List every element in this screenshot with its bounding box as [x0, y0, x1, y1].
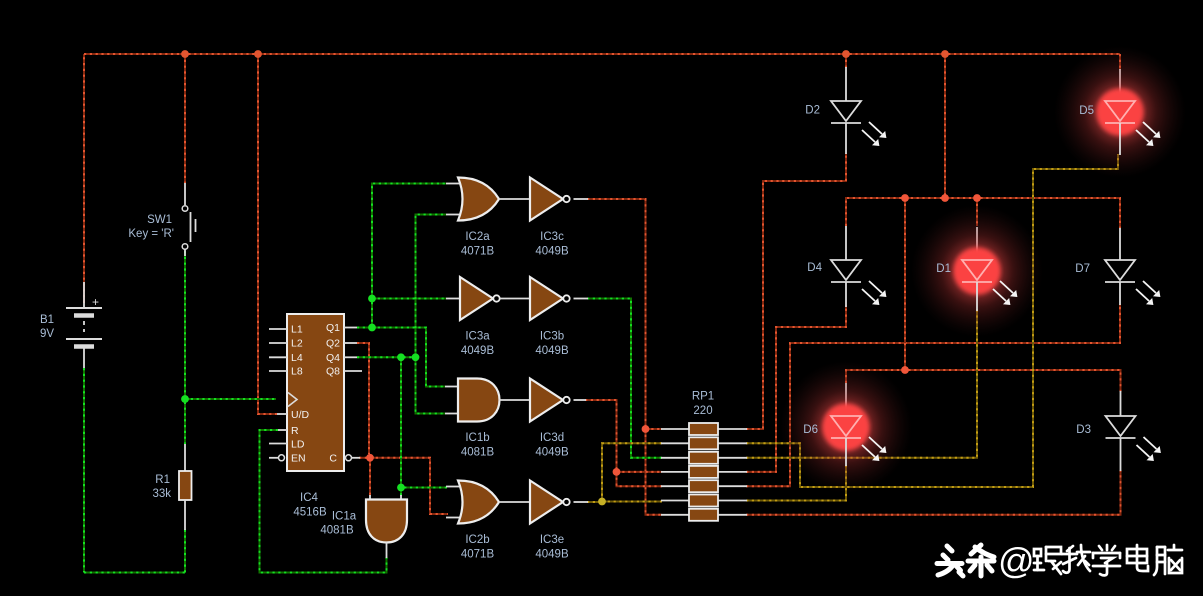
svg-text:Key = 'R': Key = 'R': [128, 228, 174, 240]
IC3c output stub: [574, 198, 589, 200]
D5 cathode lead: [1119, 123, 1121, 155]
pin L2 stub: [269, 342, 287, 344]
wire anode bus4 D6-D3: [846, 370, 1121, 392]
wire C pin to node: [359, 457, 370, 459]
LED D6: [780, 361, 912, 493]
IC3e output stub: [574, 501, 589, 503]
D1 anode lead: [976, 227, 978, 260]
svg-text:EN: EN: [291, 453, 306, 465]
watermark xue: [1093, 545, 1120, 575]
wire D2 anode from bus1: [845, 54, 847, 68]
node clock junction: [181, 395, 189, 403]
node Q4-IC2b: [397, 484, 405, 492]
wire IC4 R pin to IC1a output: [260, 430, 387, 573]
svg-text:Q2: Q2: [326, 338, 340, 350]
IC3b output stub: [574, 298, 589, 300]
node Q2-C junction: [366, 454, 374, 462]
svg-text:4516B: 4516B: [293, 507, 327, 519]
svg-text:D6: D6: [803, 424, 818, 436]
wire U/D from bus: [258, 54, 277, 414]
LED D7: [1105, 260, 1160, 305]
wire IC1b out to IC3d in: [500, 399, 531, 401]
svg-text:C: C: [329, 453, 337, 465]
D3 anode lead: [1120, 391, 1122, 416]
IC3a inverter: [460, 277, 500, 320]
svg-text:33k: 33k: [152, 488, 171, 500]
svg-text:L4: L4: [291, 352, 303, 364]
node IC3d-RP1: [613, 468, 621, 476]
pin LD stub: [269, 443, 287, 445]
svg-text:4049B: 4049B: [535, 549, 569, 561]
svg-text:L1: L1: [291, 324, 303, 336]
svg-text:D7: D7: [1075, 263, 1090, 275]
svg-text:IC1a: IC1a: [332, 511, 357, 523]
wire IC3c output down to RP1: [587, 199, 646, 429]
op IC1b input stub B: [445, 413, 459, 415]
resistor pack RP1: [661, 423, 747, 521]
svg-text:LD: LD: [291, 439, 305, 451]
wire Q4 node up to IC2a input B: [416, 215, 447, 358]
svg-text:IC3a: IC3a: [465, 331, 490, 343]
svg-text:IC3c: IC3c: [540, 231, 564, 243]
node bus1-bus2: [941, 50, 949, 58]
svg-text:L2: L2: [291, 338, 303, 350]
svg-text:D4: D4: [807, 262, 822, 274]
wire battery- down: [83, 368, 85, 573]
svg-text:U/D: U/D: [291, 409, 310, 421]
wire Q2 to node: [357, 343, 369, 454]
IC4 4516B counter body: [287, 314, 344, 471]
battery B1: [66, 295, 102, 368]
node bus2-vert945: [941, 194, 949, 202]
node Q1 junction: [368, 324, 376, 332]
wire IC3a out to IC3b in: [500, 298, 530, 300]
wire Q4 node down to IC1b input B: [416, 357, 446, 413]
op IC2b input stub B: [446, 517, 462, 519]
op IC2b OR gate: [458, 481, 499, 524]
svg-text:220: 220: [693, 405, 712, 417]
wire SW1 top from bus: [184, 54, 186, 183]
pin Q8 stub: [344, 370, 362, 372]
svg-text:IC3b: IC3b: [540, 331, 564, 343]
LED D1: [911, 205, 1043, 337]
svg-text:R: R: [291, 425, 299, 437]
watermark gen: [1034, 547, 1061, 574]
svg-text:4049B: 4049B: [535, 447, 569, 459]
IC3d output stub: [574, 399, 587, 401]
LED D2: [831, 101, 886, 146]
svg-text:IC2a: IC2a: [465, 231, 490, 243]
pin Q1 stub: [344, 327, 357, 329]
node bus2-vert905: [901, 194, 909, 202]
op IC1b input stub A: [445, 386, 459, 388]
wire IC3d output down to RP1: [585, 400, 617, 472]
wire IC2b out to IC3e in: [499, 501, 530, 503]
svg-text:Q1: Q1: [326, 322, 340, 334]
D1 cathode lead: [976, 282, 978, 311]
svg-text:R1: R1: [155, 474, 170, 486]
wire D5 anode stub from bus: [1119, 54, 1121, 70]
switch SW1: [182, 183, 195, 256]
wire SW1 bottom to R1 clock net: [184, 251, 186, 444]
wire RP1 row2 to D5 cathode: [746, 154, 1118, 487]
watermark nao: [1154, 545, 1182, 575]
svg-text:4049B: 4049B: [461, 345, 495, 357]
wire RP1 row1 to D2 cathode: [746, 153, 846, 429]
wire RP1 row5 to D7 cathode bus3: [746, 304, 1120, 486]
D3 cathode lead: [1120, 438, 1122, 471]
node bus4-vert905: [901, 366, 909, 374]
D5 anode lead: [1119, 69, 1121, 101]
watermark toutiao logo: [937, 546, 963, 576]
svg-text:4081B: 4081B: [320, 525, 354, 537]
node Q1-IC3a: [368, 295, 376, 303]
wire Q4 node down to IC2b input A: [401, 357, 447, 487]
wire Q1 to node: [357, 327, 372, 329]
wire RP1 row4 left: [617, 471, 663, 473]
D2 anode lead: [845, 67, 847, 101]
resistor R1: [179, 471, 192, 500]
wire node up to RP1 row2 left: [602, 443, 662, 501]
node bus2-D1: [973, 194, 981, 202]
watermark dian: [1127, 545, 1148, 571]
pin C stub with bubble: [346, 455, 361, 461]
IC3c inverter: [530, 178, 570, 221]
node Q4 junction A: [397, 353, 405, 361]
op IC2a input stub A: [446, 183, 462, 185]
wire node to RP1 row7 left: [646, 429, 663, 515]
svg-text:IC3d: IC3d: [540, 432, 564, 444]
D7 anode lead: [1119, 228, 1121, 260]
pin L1 stub: [269, 328, 287, 330]
node bus1-U/D: [254, 50, 262, 58]
wire RP1 row7 to D3 cathode: [746, 470, 1121, 515]
svg-text:D1: D1: [936, 263, 951, 275]
watermark wo: [1062, 545, 1090, 573]
wire bottom bus left: [84, 572, 185, 574]
wire node to RP1 row6 left: [602, 501, 662, 503]
LED D3: [1106, 416, 1161, 461]
svg-text:IC4: IC4: [300, 492, 319, 504]
IC3e inverter: [530, 481, 570, 524]
svg-text:SW1: SW1: [147, 214, 172, 226]
wire bus2 to bus4 vertical: [904, 198, 906, 370]
wire bus1 to bus2 vertical: [944, 54, 946, 198]
svg-text:+: +: [92, 295, 99, 309]
svg-text:RP1: RP1: [692, 391, 714, 403]
wire Q1 node to IC1b input A: [372, 328, 445, 387]
svg-text:IC1b: IC1b: [465, 432, 489, 444]
wire IC2a out to IC3c in: [499, 198, 530, 200]
wire IC3b output to RP1 row3 left: [587, 299, 662, 458]
wire node to IC1a input A: [369, 458, 371, 496]
op IC2a OR gate: [458, 178, 499, 221]
pin EN stub with bubble: [269, 455, 285, 461]
svg-text:4071B: 4071B: [461, 246, 495, 258]
IC3a input stub: [446, 298, 461, 300]
LED D5: [1054, 46, 1186, 178]
node bus1-SW1: [181, 50, 189, 58]
node IC3c-RP1: [642, 425, 650, 433]
pin L8 stub: [269, 370, 287, 372]
wire IC3e output to node: [587, 501, 602, 503]
wire battery+ to top bus: [83, 54, 85, 303]
pin U/D stub: [277, 413, 287, 415]
node Q4 junction B: [412, 353, 420, 361]
pin Q2 stub: [344, 342, 357, 344]
op IC2b input stub A: [446, 486, 462, 488]
svg-text:4049B: 4049B: [535, 345, 569, 357]
D7 cathode lead: [1119, 282, 1121, 305]
D6 cathode lead: [845, 438, 847, 466]
wire RP1 row1 left: [646, 428, 663, 430]
wire node to IC2b input B: [370, 458, 448, 514]
clock chevron: [288, 393, 297, 407]
pin R stub: [278, 429, 287, 431]
pin L4 stub: [269, 356, 287, 358]
svg-text:L8: L8: [291, 366, 303, 378]
svg-text:@: @: [998, 540, 1035, 581]
svg-text:IC3e: IC3e: [540, 534, 564, 546]
wire RP1 row4 to D4 cathode: [746, 305, 846, 472]
resistor R1 top lead: [184, 444, 186, 471]
svg-text:4081B: 4081B: [461, 447, 495, 459]
D6 anode lead: [845, 383, 847, 416]
D2 cathode lead: [845, 123, 847, 154]
wire anode bus2 D4-D7: [846, 198, 1120, 228]
wire node to RP1 row5 left: [617, 472, 663, 486]
node bus1-D2: [842, 50, 850, 58]
pin Q4 stub: [344, 356, 357, 358]
wire Q4 node to IC1a input B: [400, 488, 402, 497]
svg-text:4049B: 4049B: [535, 246, 569, 258]
svg-text:D2: D2: [805, 105, 820, 117]
IC1a AND gate (rotated): [366, 500, 407, 543]
wire D1 anode from bus2: [976, 198, 978, 226]
wire Q1 node to IC3a input: [372, 298, 446, 300]
wire top power bus: [84, 53, 1120, 55]
IC3d inverter: [530, 379, 570, 422]
svg-text:Q8: Q8: [326, 366, 340, 378]
svg-text:9V: 9V: [40, 328, 54, 340]
IC1a input stub A: [369, 495, 371, 500]
wire Q4 to nodes: [357, 356, 416, 358]
svg-text:B1: B1: [40, 314, 54, 326]
wire RP1 row6 to D6 cathode: [746, 465, 846, 501]
battery B1 positive lead: [83, 282, 85, 308]
svg-text:D5: D5: [1079, 105, 1094, 117]
op IC2a input stub B: [446, 214, 462, 216]
IC3b inverter: [530, 277, 570, 320]
IC1a output stub: [386, 543, 388, 559]
op IC1b AND gate: [458, 379, 500, 422]
svg-text:Q4: Q4: [326, 352, 340, 364]
svg-text:D3: D3: [1076, 424, 1091, 436]
wire RP1 row3 to D1 cathode: [746, 309, 977, 458]
wire clock net to IC4 CLK: [185, 398, 276, 400]
IC1a input stub B: [400, 495, 402, 500]
resistor R1 bottom lead: [184, 500, 186, 530]
svg-text:4071B: 4071B: [461, 549, 495, 561]
wire Q1 node up to IC2a input A: [372, 184, 446, 328]
D4 cathode lead: [845, 282, 847, 307]
svg-text:IC2b: IC2b: [465, 534, 489, 546]
D4 anode lead: [845, 226, 847, 260]
node IC3e junction: [598, 498, 606, 506]
wire R1 bottom up: [184, 529, 186, 573]
LED D4: [831, 260, 886, 305]
